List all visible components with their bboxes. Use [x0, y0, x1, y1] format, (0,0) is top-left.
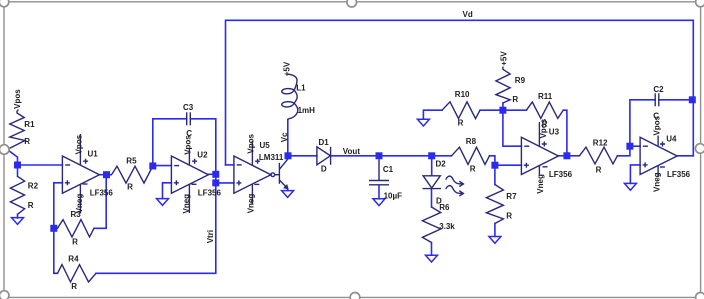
- resistor R5: [111, 166, 153, 183]
- wire D2 cathode to R6: [431, 189, 433, 207]
- wire L1 bottom lead to node Vc: [287, 120, 289, 156]
- node C junction (U3 noninverting): [491, 162, 498, 169]
- ground below R7: [489, 237, 501, 244]
- wire node C to U3 noninverting input: [495, 164, 522, 166]
- SECTION: junctions: [14, 96, 696, 232]
- wire node A to R2: [17, 165, 19, 176]
- wire node to R12: [567, 155, 580, 157]
- svg-text:U1: U1: [88, 150, 99, 159]
- wire node E to U4 inverting input: [630, 145, 640, 147]
- node U1 output junction: [103, 171, 110, 178]
- wire port to node A: [10, 151, 18, 165]
- wire R10 right to node D: [480, 109, 503, 111]
- wire C3 left leg: [153, 119, 187, 166]
- SECTION: grounds: [12, 119, 637, 262]
- svg-text:R12: R12: [593, 139, 608, 148]
- svg-text:Vd: Vd: [463, 10, 473, 19]
- node Vout junction: [376, 152, 383, 159]
- resistor R4: [54, 265, 96, 282]
- wire R11 right to U3 output node: [563, 110, 567, 156]
- wire node B to U2 inverting input: [153, 165, 172, 167]
- svg-text:Vneg: Vneg: [653, 172, 662, 192]
- op-amp U4: [640, 136, 677, 178]
- wire R3 loop up to U1 output node: [94, 175, 106, 229]
- node U2 output junction upper: [212, 171, 219, 178]
- wire U2 output node to U5 noninverting input: [216, 182, 234, 184]
- svg-text:Vneg: Vneg: [246, 194, 255, 214]
- ground below U4 noninverting input: [624, 183, 636, 190]
- port top middle: [347, 0, 357, 7]
- wire Vd to U5 inverting input: [226, 164, 234, 166]
- svg-text:Vout: Vout: [343, 147, 361, 156]
- wire R6 to ground: [431, 243, 433, 256]
- node R3 junction: [50, 225, 57, 232]
- wire R12 to node E: [617, 146, 630, 156]
- svg-text:C1: C1: [383, 165, 394, 174]
- svg-text:LF356: LF356: [667, 170, 691, 179]
- resistor R3: [54, 220, 94, 237]
- wire node C to R7: [494, 165, 496, 184]
- resistor R12: [579, 147, 617, 164]
- svg-text:Vpos: Vpos: [539, 118, 548, 138]
- svg-text:U3: U3: [549, 128, 560, 137]
- node D2 junction: [428, 152, 435, 159]
- resistor R9: [496, 67, 510, 104]
- wire node Vc to D1 anode: [288, 155, 317, 157]
- svg-text:-Vpos: -Vpos: [13, 89, 22, 112]
- svg-text:D2: D2: [436, 160, 447, 169]
- comparator U5 LM311: [234, 141, 288, 204]
- resistor R8: [452, 147, 490, 164]
- wire U1 noninverting rail: [54, 183, 63, 273]
- svg-text:Vpos: Vpos: [653, 115, 662, 135]
- node D junction (R9 R10 R11): [499, 107, 506, 114]
- resistor R11: [526, 102, 563, 118]
- svg-text:+5V: +5V: [283, 61, 292, 76]
- svg-text:U5: U5: [260, 141, 271, 150]
- inductor L1: [282, 74, 298, 120]
- svg-text:R4: R4: [68, 255, 79, 264]
- node Vc junction: [285, 152, 292, 159]
- diode D1: [317, 147, 331, 165]
- svg-text:R: R: [24, 137, 30, 146]
- resistor R2: [10, 176, 24, 214]
- svg-text:LF356: LF356: [90, 188, 114, 197]
- svg-text:LF356: LF356: [549, 170, 573, 179]
- wire C1 bottom lead to ground: [378, 185, 380, 199]
- svg-text:U4: U4: [666, 135, 677, 144]
- svg-text:1mH: 1mH: [298, 106, 316, 115]
- svg-text:R6: R6: [439, 203, 450, 212]
- op-amp U3: [521, 122, 558, 175]
- svg-text:R11: R11: [538, 92, 553, 101]
- svg-text:R1: R1: [24, 120, 35, 129]
- wire R7 to ground: [494, 224, 496, 237]
- port left middle: [0, 145, 9, 155]
- wire U4 output to Vd rail: [676, 155, 693, 157]
- wire U4 plus to ground: [630, 165, 640, 184]
- svg-text:U2: U2: [197, 151, 208, 160]
- svg-text:D1: D1: [319, 138, 330, 147]
- port top-left corner: [0, 0, 9, 7]
- port top-right corner: [696, 0, 704, 7]
- wire R10 left to ground: [423, 110, 442, 119]
- svg-text:Vpos: Vpos: [184, 135, 193, 155]
- svg-text:3.3k: 3.3k: [439, 222, 455, 231]
- svg-text:R: R: [71, 282, 77, 291]
- wire D1 cathode to node Vout: [331, 155, 379, 157]
- wire C3 right leg: [190, 119, 216, 175]
- op-amp U2: [171, 149, 208, 214]
- svg-text:R: R: [506, 212, 512, 221]
- resistor R6: [422, 207, 440, 243]
- svg-text:R: R: [127, 182, 133, 191]
- wire node D to R11: [503, 109, 527, 111]
- wire node D2 to R8: [432, 155, 452, 157]
- svg-text:Vtri: Vtri: [206, 230, 215, 243]
- resistor R7: [486, 185, 503, 224]
- ground below C1: [373, 199, 385, 206]
- port right middle: [695, 144, 704, 154]
- node B junction (U2 inverting): [149, 163, 156, 170]
- wire D2 top lead: [431, 156, 433, 176]
- wire R9 bottom lead: [502, 103, 504, 110]
- svg-text:C3: C3: [183, 103, 194, 112]
- node U3 output junction: [563, 152, 570, 159]
- svg-text:R: R: [458, 118, 464, 127]
- svg-text:Vpos: Vpos: [75, 134, 84, 154]
- svg-text:R: R: [470, 164, 476, 173]
- wire U2 apex to node: [208, 173, 215, 175]
- port bottom middle: [350, 293, 360, 299]
- node C2-Vd junction: [689, 96, 696, 103]
- ground below R10: [417, 119, 429, 126]
- capacitor C1: [369, 159, 389, 185]
- resistor R1: [10, 111, 25, 149]
- wire C2 right to Vd rail: [659, 99, 694, 101]
- wire R4 to Vtri rail: [96, 183, 216, 273]
- svg-text:R8: R8: [466, 137, 477, 146]
- svg-text:R: R: [512, 95, 518, 104]
- wire R8 to node C: [490, 156, 495, 165]
- svg-text:+5V: +5V: [500, 51, 509, 66]
- diode D2 (LED): [423, 176, 464, 196]
- svg-text:10µF: 10µF: [384, 192, 403, 201]
- svg-text:L1: L1: [296, 83, 306, 92]
- wire U1 output to node: [99, 174, 110, 176]
- svg-text:R5: R5: [126, 157, 137, 166]
- SECTION: components: [10, 67, 677, 283]
- port bottom-right corner: [696, 293, 704, 299]
- wire node D to U3 inverting input: [503, 110, 522, 146]
- port bottom-left corner: [0, 291, 9, 299]
- svg-text:R2: R2: [28, 181, 39, 190]
- wire node Vtri rail to U2 output node: [215, 174, 217, 183]
- svg-text:R10: R10: [455, 90, 470, 99]
- svg-text:R: R: [596, 165, 602, 174]
- op-amp U1: [62, 134, 99, 214]
- svg-text:R: R: [28, 201, 34, 210]
- node A junction: [14, 162, 21, 169]
- wire U3 apex to node: [558, 155, 567, 157]
- ground below R6: [426, 255, 438, 262]
- node E junction (U4 inverting): [626, 143, 633, 150]
- ground below R2: [12, 218, 24, 225]
- wire R2 to ground: [17, 214, 19, 218]
- wire Vd top run: [226, 20, 694, 165]
- svg-text:Vneg: Vneg: [536, 174, 545, 194]
- capacitor C2: [655, 93, 659, 106]
- svg-text:R: R: [72, 238, 78, 247]
- capacitor C3: [187, 112, 191, 125]
- wire node A to U1 inverting input: [18, 164, 63, 166]
- svg-text:Vpos: Vpos: [247, 133, 256, 153]
- wire U5 emitter to ground: [287, 189, 289, 191]
- wire U2 plus to ground: [163, 183, 172, 199]
- svg-text:Vneg: Vneg: [182, 194, 191, 214]
- svg-text:C2: C2: [653, 85, 664, 94]
- node U2 output junction lower: [212, 179, 219, 186]
- resistor R10: [442, 102, 480, 119]
- ground below U5 emitter: [282, 191, 294, 198]
- svg-text:R7: R7: [506, 192, 517, 201]
- svg-text:LF356: LF356: [198, 188, 222, 197]
- wire node E up to C2 left: [630, 100, 655, 146]
- svg-text:LM311: LM311: [259, 153, 284, 162]
- svg-text:Vneg: Vneg: [75, 194, 84, 214]
- svg-text:R9: R9: [515, 76, 526, 85]
- svg-text:D: D: [321, 165, 327, 174]
- wire node Vout to node D2: [379, 155, 432, 157]
- ground below U2 noninverting input: [157, 199, 169, 206]
- svg-text:Vc: Vc: [280, 132, 289, 142]
